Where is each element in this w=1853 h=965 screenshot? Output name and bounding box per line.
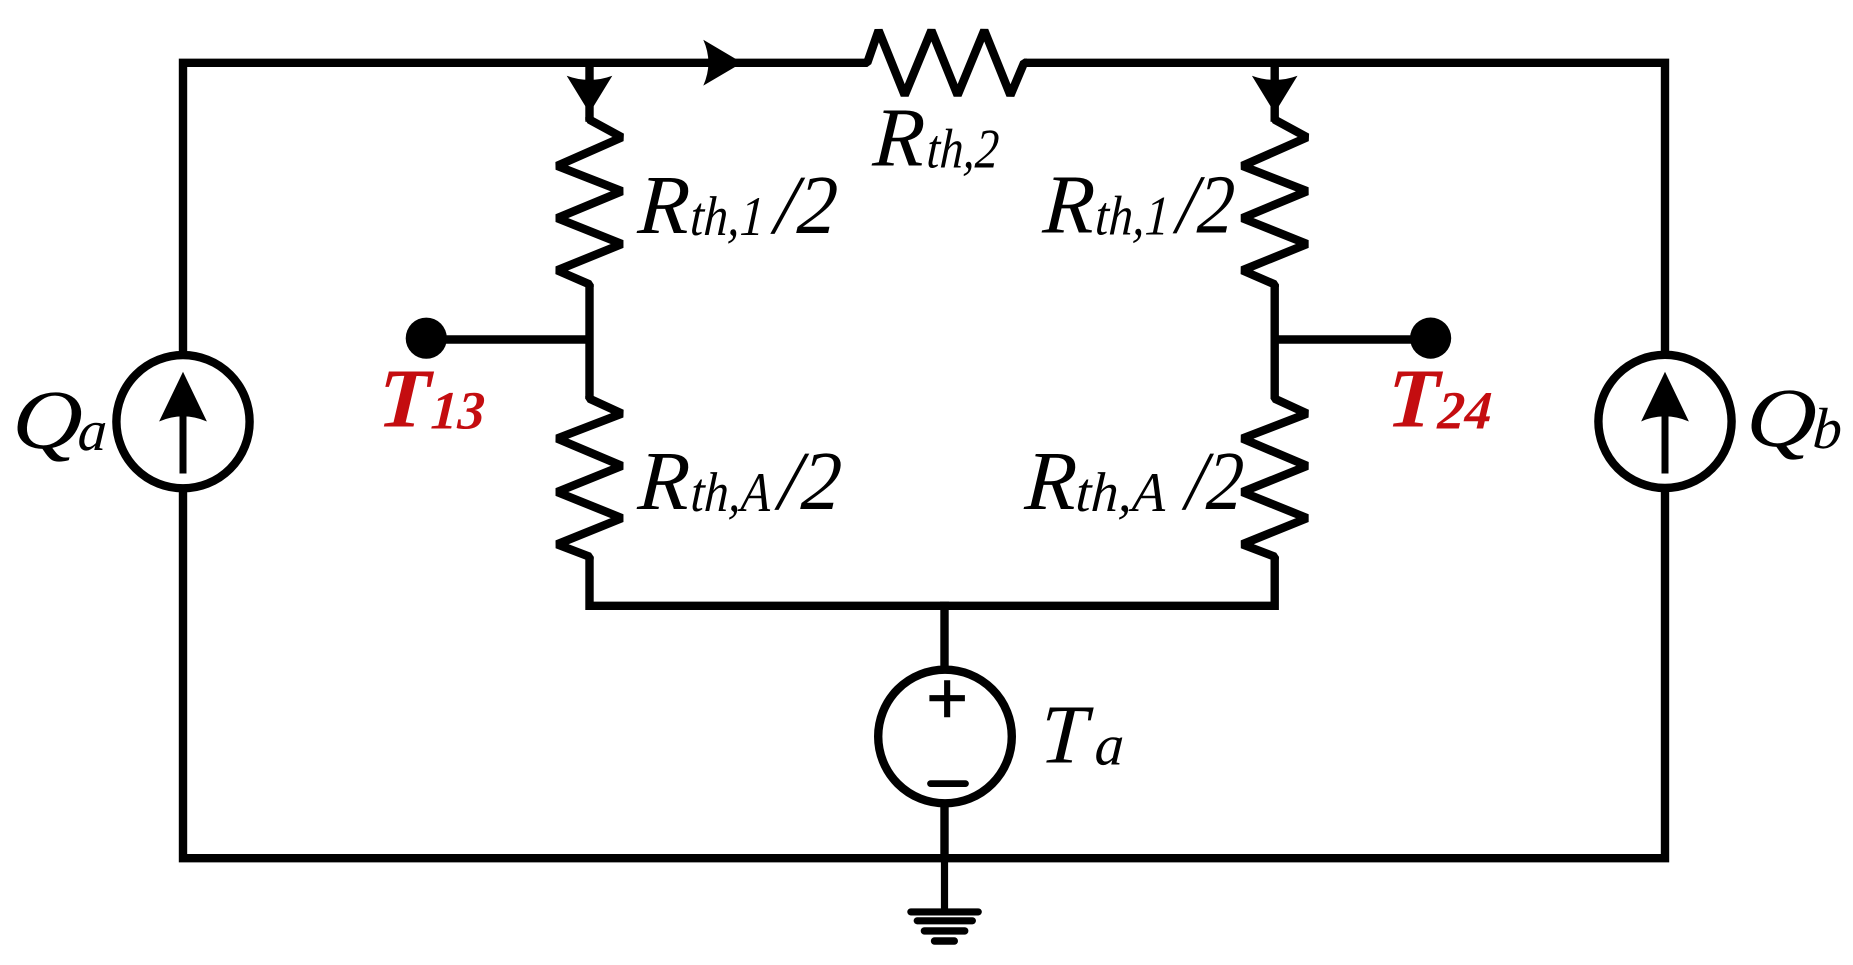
wire right branch upper stub [1270,63,1278,122]
svg-text:13: 13 [429,381,486,441]
svg-text:Q: Q [1744,372,1819,465]
arrow down right branch [1252,76,1298,113]
label R_th,A/2 left [635,435,844,528]
label Qa [10,374,109,467]
svg-text:a: a [1093,713,1126,778]
voltage source Ta circle [878,670,1012,804]
svg-text:R: R [1022,435,1079,528]
wire left branch lower stub + inner bottom corner [590,557,950,606]
label R_th,1/2 right [1040,159,1237,252]
svg-text:th,A: th,A [1074,462,1168,524]
Ta minus sign [931,780,966,787]
svg-text:th,1: th,1 [1094,186,1171,248]
current source Qb circle [1598,355,1731,488]
label T13 [376,353,487,446]
svg-text:R: R [635,159,692,252]
svg-text:th,1: th,1 [689,186,766,248]
label Ta [1038,689,1126,782]
label R_th,1/2 left [635,159,840,252]
svg-text:R: R [870,91,927,184]
current source Qb arrow [1662,415,1669,474]
wire left branch middle [585,284,593,398]
resistor R_th,1/2 right zigzag [1242,117,1307,287]
wire T24 tap [1275,335,1431,343]
resistor R_th,1/2 left zigzag [557,117,622,287]
svg-text:th,A: th,A [689,462,773,524]
svg-text:R: R [635,435,692,528]
label Qb [1744,372,1844,465]
wire ground stub [941,858,948,908]
current source Qa arrow [180,415,187,474]
svg-text:/2: /2 [773,435,844,528]
label R_th,2 [870,91,1001,184]
resistor R_th,A/2 left zigzag [557,396,622,559]
node T24 dot [1410,318,1451,359]
wire T13 tap [426,335,589,343]
wire Ta stub bottom [940,790,948,858]
arrow right on top wire [703,40,742,86]
resistor R_th,A/2 right zigzag [1242,396,1307,559]
label T24 [1385,353,1494,446]
wire Ta stub top [940,606,948,690]
wire outer loop [183,63,1665,858]
svg-text:b: b [1811,396,1844,461]
wire left branch upper stub [585,63,593,122]
Ta plus sign [929,680,965,717]
svg-text:a: a [76,398,109,463]
resistor R_th,2 zigzag [864,30,1027,95]
label R_th,A/2 right [1022,435,1246,528]
svg-text:24: 24 [1435,381,1493,441]
wire right branch middle [1270,284,1278,398]
current source Qa circle [116,355,249,488]
wire right branch lower stub + inner bottom corner [940,557,1275,606]
arrow down left branch [567,76,613,113]
ground [911,912,979,941]
svg-text:/2: /2 [1171,159,1237,252]
svg-text:R: R [1040,159,1097,252]
node T13 dot [406,318,447,359]
svg-text:/2: /2 [1180,435,1246,528]
svg-text:/2: /2 [769,159,840,252]
svg-text:T: T [1038,689,1095,782]
svg-text:Q: Q [10,374,85,467]
svg-text:T: T [376,353,436,446]
svg-text:th,2: th,2 [925,118,1000,180]
